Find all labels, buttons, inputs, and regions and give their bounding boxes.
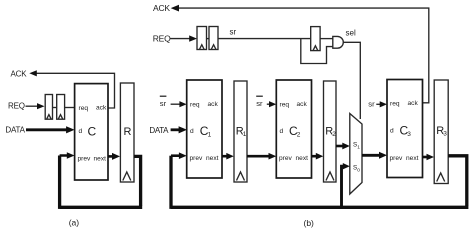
- pin label d C3: [390, 128, 394, 135]
- gate U1 AND: [333, 36, 344, 48]
- pin label ack C1: [208, 101, 219, 108]
- svg-text:d: d: [190, 128, 194, 135]
- svg-text:REQ: REQ: [153, 34, 171, 44]
- pin label req C2: [280, 102, 290, 109]
- svg-text:next: next: [406, 155, 419, 162]
- pin label req C1: [190, 102, 200, 109]
- latch L4 (b) delay element: [209, 27, 218, 50]
- svg-text:R: R: [124, 126, 132, 138]
- label (b): [304, 218, 315, 228]
- svg-text:DATA: DATA: [149, 126, 169, 135]
- svg-text:d: d: [79, 128, 83, 135]
- svg-text:ack: ack: [297, 101, 308, 108]
- pin label S1 mux: [353, 142, 360, 151]
- svg-text:ack: ack: [408, 100, 419, 107]
- register R (a) box: [120, 83, 134, 182]
- wire between latches (b): [207, 38, 210, 40]
- svg-text:3: 3: [443, 131, 447, 138]
- wire between latches (a): [53, 107, 57, 109]
- svg-text:d: d: [390, 128, 394, 135]
- svg-text:ack: ack: [208, 101, 219, 108]
- pin label next C3: [406, 155, 419, 162]
- wire feedback loop (a) thick: R out, down, rail, up, into prev: [60, 156, 143, 209]
- wire sel from gate down to mux: [343, 42, 360, 119]
- controller C3 box: [387, 80, 423, 178]
- mux M1 trapezoid: [350, 114, 362, 195]
- wire C1 next to R1 thick arrow: [222, 153, 234, 160]
- pin label d C2: [280, 128, 284, 135]
- svg-text:next: next: [206, 155, 219, 162]
- latch L3 (b) delay element: [197, 27, 207, 50]
- node DATA (a) label: [5, 126, 25, 135]
- svg-text:sr: sr: [256, 99, 263, 108]
- svg-text:prev: prev: [279, 155, 293, 162]
- svg-text:next: next: [94, 156, 107, 163]
- svg-text:sr: sr: [230, 28, 237, 37]
- node DATA (b) label: [149, 126, 169, 135]
- svg-text:req: req: [79, 105, 89, 112]
- wire sr to flip-flop: [218, 38, 311, 40]
- svg-text:next: next: [296, 155, 309, 162]
- latch L2 (a) delay element: [57, 95, 65, 120]
- pin label ack C2: [297, 101, 308, 108]
- svg-text:sr: sr: [368, 99, 375, 108]
- node ACK (a) label: [11, 69, 28, 78]
- wire prev arrow (a): [60, 152, 75, 159]
- flip-flop FF (b) toggle element: [311, 27, 320, 51]
- svg-text:2: 2: [332, 131, 336, 138]
- wire mux output to C3 prev thick arrow: [362, 152, 387, 159]
- label R (a): [124, 126, 132, 138]
- label C (a): [88, 125, 97, 139]
- wire FF output to gate: [320, 38, 333, 40]
- register R3 box: [434, 80, 448, 184]
- svg-text:req: req: [390, 101, 400, 108]
- net sel label: [346, 28, 356, 37]
- wire C3 next to R3 thick arrow: [423, 154, 435, 161]
- label (a): [69, 217, 80, 227]
- svg-text:1: 1: [208, 131, 212, 138]
- wire R1 to C2 prev thick arrow: [247, 153, 276, 160]
- svg-text:ack: ack: [96, 105, 107, 112]
- net sr-bar label for C1: [160, 96, 167, 109]
- svg-text:(a): (a): [69, 217, 80, 227]
- svg-text:1: 1: [243, 131, 247, 138]
- wire sr-bar arrow into C1 req: [171, 101, 187, 107]
- svg-text:(b): (b): [304, 218, 315, 228]
- wire prev arrow into C1: [171, 152, 187, 159]
- wire sr-bar arrow into C2 req: [267, 101, 277, 107]
- wire feedback up into mux S0 thick arrow: [342, 163, 350, 207]
- node REQ (a) label: [8, 101, 25, 110]
- pin label req (a): [79, 105, 89, 112]
- wire sr arrow into C3 req: [376, 101, 387, 107]
- pin label prev C3: [390, 155, 404, 162]
- pin label ack C3: [408, 100, 419, 107]
- svg-text:sr: sr: [160, 99, 167, 108]
- register R1 box: [234, 81, 247, 182]
- svg-text:req: req: [280, 102, 290, 109]
- svg-text:REQ: REQ: [8, 101, 25, 110]
- svg-text:prev: prev: [390, 155, 404, 162]
- svg-text:sel: sel: [346, 28, 356, 37]
- wire C2 next to R2 thick arrow: [312, 153, 324, 160]
- node REQ (b) label: [153, 34, 171, 44]
- svg-text:prev: prev: [190, 155, 204, 162]
- wire ACK (a) with arrowhead: [29, 70, 114, 108]
- pin label d (a): [79, 128, 83, 135]
- svg-text:d: d: [280, 128, 284, 135]
- svg-text:2: 2: [297, 131, 301, 138]
- pin label req C3: [390, 101, 400, 108]
- label R3: [436, 125, 447, 138]
- net sr-bar label for C2: [256, 96, 263, 109]
- svg-text:C: C: [88, 125, 97, 139]
- pin label S0 mux: [353, 165, 360, 174]
- pin label d C1: [190, 128, 194, 135]
- controller C (a) box: [75, 84, 108, 180]
- wire REQ (b) arrow into delay latch: [170, 35, 197, 41]
- svg-text:ACK: ACK: [153, 3, 170, 13]
- pin label prev C2: [279, 155, 293, 162]
- label C3: [400, 123, 412, 138]
- wire DATA (a) thick arrow into d: [26, 126, 75, 133]
- pin label next C2: [296, 155, 309, 162]
- svg-text:prev: prev: [78, 156, 92, 163]
- pin label prev C1: [190, 155, 204, 162]
- pin label next (a): [94, 156, 107, 163]
- svg-text:1: 1: [357, 144, 360, 150]
- controller C2 box: [276, 80, 311, 178]
- wire sr bypass branch down and around to gate: [301, 39, 333, 64]
- wire R2 to mux S1 thick arrow: [336, 143, 350, 150]
- wire DATA (b) thick arrow into C1 d: [171, 126, 187, 133]
- pin label next C1: [206, 155, 219, 162]
- pin label ack (a): [96, 105, 107, 112]
- wire latch L2 to C req (a): [65, 107, 75, 109]
- label R1: [236, 126, 247, 139]
- register R2 box: [324, 81, 337, 182]
- label C1: [200, 124, 212, 139]
- wire REQ (a) arrow into delay latch: [26, 103, 45, 109]
- label C2: [289, 124, 301, 139]
- wire R3 output feedback thick: right, down, rail, up at left: [171, 156, 468, 209]
- controller C1 box: [187, 80, 222, 178]
- label R2: [325, 126, 336, 139]
- svg-text:0: 0: [357, 167, 360, 173]
- wire next to R (a) thick arrow: [108, 153, 120, 160]
- node ACK (b) label: [153, 3, 170, 13]
- svg-text:DATA: DATA: [5, 126, 25, 135]
- svg-text:req: req: [190, 102, 200, 109]
- latch L1 (a) delay element: [45, 95, 52, 120]
- svg-text:3: 3: [407, 131, 411, 138]
- net sr label for C3: [368, 99, 375, 108]
- pin label prev (a): [78, 156, 92, 163]
- wire ACK (b) arrow, line to right, down to C3 ack: [171, 5, 429, 103]
- net sr label: [230, 28, 237, 37]
- svg-text:ACK: ACK: [11, 69, 28, 78]
